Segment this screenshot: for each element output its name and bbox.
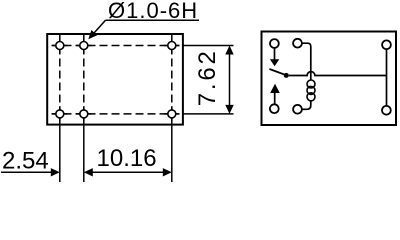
svg-text:7.62: 7.62	[194, 48, 221, 106]
svg-text:Ø1.0-6H: Ø1.0-6H	[108, 0, 198, 23]
svg-text:2.54: 2.54	[2, 148, 49, 175]
svg-text:10.16: 10.16	[97, 145, 157, 172]
